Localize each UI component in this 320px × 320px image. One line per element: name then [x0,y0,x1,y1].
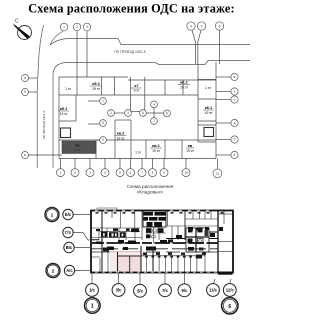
svg-text:6: 6 [228,304,231,310]
svg-text:6: 6 [130,171,132,175]
svg-text:2: 2 [52,268,55,273]
door stubs bottom band [103,248,206,259]
compass needle [13,24,30,39]
corridor walls [92,242,218,244]
svg-text:Г/с: Г/с [65,230,72,235]
svg-text:5: 5 [201,24,203,28]
svg-text:4: 4 [190,24,192,28]
toilet fixtures mid [146,228,164,238]
svg-text:9/с: 9/с [181,288,187,293]
bottom row circles [57,169,65,177]
bottom edge [59,158,216,160]
horizontal y95 [59,94,198,96]
svg-text:а: а [24,76,26,80]
svg-text:19 эт: 19 эт [152,149,160,153]
svg-text:1: 1 [63,25,65,29]
label underlines [58,85,214,149]
compass north arrow [18,26,32,40]
right edge [215,62,217,159]
svg-text:2: 2 [74,171,76,175]
svg-text:Схема расположения ОДС на этаж: Схема расположения ОДС на этаже: [28,2,235,16]
svg-text:в: в [24,153,26,157]
svg-text:11: 11 [216,172,220,176]
svg-text:д: д [234,121,236,125]
horizontals [92,227,140,229]
svg-text:9: 9 [166,112,168,116]
svg-text:к5.1: к5.1 [60,106,68,111]
svg-text:кв.2: кв.2 [117,131,126,136]
bottom plan leader lines [73,215,231,285]
svg-text:к7: к7 [134,83,139,88]
svg-text:В/с: В/с [66,245,73,250]
svg-text:А/с: А/с [66,268,73,273]
left column cells [75,95,77,121]
svg-text:3: 3 [127,111,129,115]
svg-text:9: 9 [163,171,165,175]
axis circles top row [60,23,68,31]
svg-text:ПР. ПРОЕЗД 1921 А: ПР. ПРОЕЗД 1921 А [42,110,46,140]
top-left balcony [97,208,117,211]
right column dividers [198,79,216,81]
svg-text:к6.1: к6.1 [205,105,213,110]
storage cell ticks [145,255,198,257]
svg-text:7: 7 [153,119,155,123]
square marker right [204,128,214,137]
left leaders [73,214,91,216]
svg-text:8: 8 [102,121,104,125]
ODS dark rectangle [62,141,96,154]
svg-text:5: 5 [102,138,104,142]
svg-text:19 эт: 19 эт [180,86,188,90]
svg-text:Е/с: Е/с [65,212,72,217]
svg-text:1 эт: 1 эт [65,87,71,91]
svg-text:2: 2 [76,25,78,29]
svg-text:к5.2: к5.2 [92,81,100,86]
leader verticals from top circles [76,31,78,95]
small fixtures left mid band [96,229,139,238]
courtyard leaders and kv.2 slab [88,100,101,102]
svg-text:19 эт: 19 эт [60,112,68,116]
svg-text:кв: кв [188,143,193,148]
svg-text:19 эт: 19 эт [92,87,100,91]
road 1921A left edge [37,25,43,168]
bottom strip [59,139,216,141]
svg-text:С: С [15,19,19,25]
right circle leaders [216,76,231,78]
mid band verticals [98,228,100,240]
svg-text:1/с: 1/с [89,288,95,293]
svg-text:к6.2: к6.2 [180,80,188,85]
red partition lines [110,252,141,256]
svg-text:8: 8 [152,171,154,175]
svg-text:1: 1 [102,99,104,103]
svg-text:1 эт: 1 эт [205,86,211,90]
left circle leaders [29,77,38,79]
pink rooms [110,252,141,272]
top plan circle digits [24,24,236,175]
svg-text:3: 3 [86,25,88,29]
axis circles left of bottom plan [63,209,75,275]
radiator marks under windows [96,212,224,214]
top edge left part [59,76,128,78]
interior thin walls top band [92,211,233,272]
road 1921A right edge [52,75,54,168]
axis circles left [22,75,29,82]
stubs to bottom circles [60,159,62,170]
bath core dark cells right [186,228,209,252]
svg-text:4: 4 [104,171,106,175]
svg-text:4: 4 [153,103,155,107]
svg-text:7/с: 7/с [162,288,168,293]
interior thin walls bottom band [92,248,205,272]
left edge [58,77,60,159]
window notches top edge [95,210,209,211]
building outer walls [91,211,233,273]
square marker left [61,128,71,138]
svg-text:3: 3 [89,171,91,175]
axis circles below bottom plan [86,284,237,298]
bottom-right protrusion [218,272,233,275]
verticals upper band [101,77,103,95]
svg-text:е: е [234,98,236,102]
svg-text:б: б [24,90,26,94]
top plan circles [22,22,239,178]
svg-text:3/с: 3/с [116,288,122,293]
section double circles left [45,208,60,278]
right wing wall [217,211,219,272]
inner column right x198 [197,64,199,143]
svg-text:5: 5 [119,171,121,175]
courtyard circles [100,98,107,105]
svg-text:19 эт: 19 эт [117,137,125,141]
svg-text:7: 7 [141,171,143,175]
axis circles right column [231,73,238,80]
building block outlines [29,30,231,169]
building labels [60,80,213,155]
window notches bottom edge [95,271,217,272]
road 1922A lower edge [53,61,250,76]
svg-text:9 эт: 9 эт [134,89,140,93]
svg-text:1 эт: 1 эт [135,151,141,155]
svg-text:4: 4 [234,153,236,157]
section double circles bottom [85,298,239,314]
svg-text:Схема расположения: Схема расположения [127,184,174,189]
svg-text:12/с: 12/с [226,288,235,293]
svg-text:6: 6 [142,111,144,115]
dark corridor smudges [96,240,167,251]
svg-text:1: 1 [91,304,94,310]
svg-text:1: 1 [60,171,62,175]
top edge right part [128,79,216,81]
stair core dark cells [143,211,166,227]
svg-text:2: 2 [110,111,112,115]
svg-text:10: 10 [184,171,188,175]
svg-text:11/с: 11/с [209,288,218,293]
svg-text:кв.1: кв.1 [152,143,161,148]
svg-text:1: 1 [51,212,54,217]
svg-text:5: 5 [234,138,236,142]
road 1922A upper edge [50,31,63,45]
svg-text:19 эт: 19 эт [186,149,194,153]
svg-text:19 эт: 19 эт [74,148,82,152]
svg-text:«Кладовых»: «Кладовых» [137,190,164,195]
svg-text:ПР. ПРОЕЗД 1922 А: ПР. ПРОЕЗД 1922 А [114,50,146,54]
svg-text:5/с: 5/с [137,288,143,293]
svg-text:6: 6 [219,24,221,28]
svg-text:19 эт: 19 эт [205,111,213,115]
